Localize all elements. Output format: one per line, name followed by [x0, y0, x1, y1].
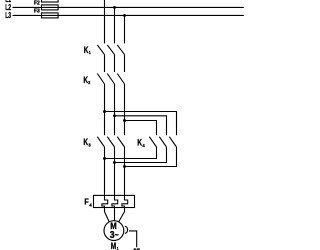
svg-text:1: 1: [89, 50, 91, 56]
svg-text:M: M: [111, 241, 117, 250]
svg-text:4: 4: [89, 202, 92, 208]
svg-text:F2: F2: [34, 1, 40, 7]
svg-text:L3: L3: [5, 10, 11, 20]
svg-text:F3: F3: [34, 9, 40, 15]
svg-text:1: 1: [117, 246, 119, 250]
svg-text:~: ~: [115, 230, 119, 240]
svg-text:4: 4: [142, 143, 145, 149]
svg-text:2: 2: [88, 80, 90, 86]
svg-text:F: F: [84, 196, 88, 206]
svg-text:3: 3: [88, 142, 91, 148]
